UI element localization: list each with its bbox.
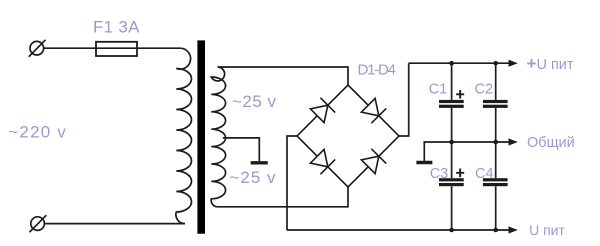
arrow +U output [509, 60, 518, 67]
svg-text:+U пит: +U пит [527, 54, 574, 73]
svg-text:~25 v: ~25 v [230, 168, 277, 187]
wire secondary top to bridge top [218, 67, 348, 85]
capacitor C1 plates [439, 100, 464, 108]
transformer T1 secondary winding [211, 67, 225, 207]
wire capacitor column C2/C4 [495, 63, 497, 230]
diode bridge diamond wires [297, 85, 399, 187]
plus mark C1 [456, 90, 464, 99]
wire negative rail (-U) [287, 229, 511, 231]
svg-text:C1: C1 [429, 82, 448, 98]
wire common rail [424, 142, 510, 161]
svg-text:C4: C4 [475, 166, 494, 182]
ground (common rail) [416, 161, 432, 164]
junction node top rail / C2 [493, 61, 498, 66]
transformer core [197, 40, 205, 233]
capacitor C4 plates [483, 178, 508, 186]
svg-text:C2: C2 [475, 82, 494, 98]
svg-text:C3: C3 [430, 166, 449, 182]
wire capacitor column C1/C3 [451, 63, 453, 230]
svg-text:Общий: Общий [527, 135, 575, 151]
center tap wire [223, 138, 259, 161]
junction node top rail / C1 [449, 61, 454, 66]
svg-text:~25 v: ~25 v [232, 92, 277, 111]
diode D4 (bottom-right) [361, 149, 386, 174]
ground (center tap) [251, 161, 268, 164]
terminal X1 (top-left input) [29, 40, 46, 57]
junction node negative rail / C3 [449, 228, 454, 233]
wire bridge left vertex to negative rail [287, 136, 297, 230]
wire fuse to transformer primary [137, 47, 180, 49]
junction node common rail / C2-C4 [493, 140, 498, 145]
wire X1 to fuse [44, 47, 97, 49]
diode D3 (bottom-left) [310, 149, 335, 174]
svg-text:U пит: U пит [529, 222, 565, 238]
diode D2 (top-right) [361, 98, 386, 123]
svg-text:~220 v: ~220 v [8, 123, 66, 142]
diode D1 (top-left) [310, 98, 335, 123]
transformer T1 primary winding [176, 48, 192, 223]
wire secondary bottom to bridge bottom [218, 187, 348, 207]
wire primary bottom to terminal X2 [44, 223, 185, 225]
wire bridge right vertex to positive rail [399, 63, 409, 136]
plus mark C3 [456, 169, 464, 178]
svg-text:F1 3A: F1 3A [93, 18, 140, 37]
terminal X2 (bottom-left input) [30, 215, 47, 232]
junction node common rail / C1-C3 [449, 140, 454, 145]
arrow -U output [509, 226, 518, 233]
capacitor C2 plates [483, 100, 508, 108]
junction node negative rail / C4 [493, 228, 498, 233]
wire positive rail (+U) [409, 62, 511, 64]
svg-text:D1-D4: D1-D4 [358, 61, 397, 78]
fuse F1 body [96, 42, 137, 56]
arrow common output [509, 138, 518, 145]
capacitor C3 plates [439, 178, 464, 186]
